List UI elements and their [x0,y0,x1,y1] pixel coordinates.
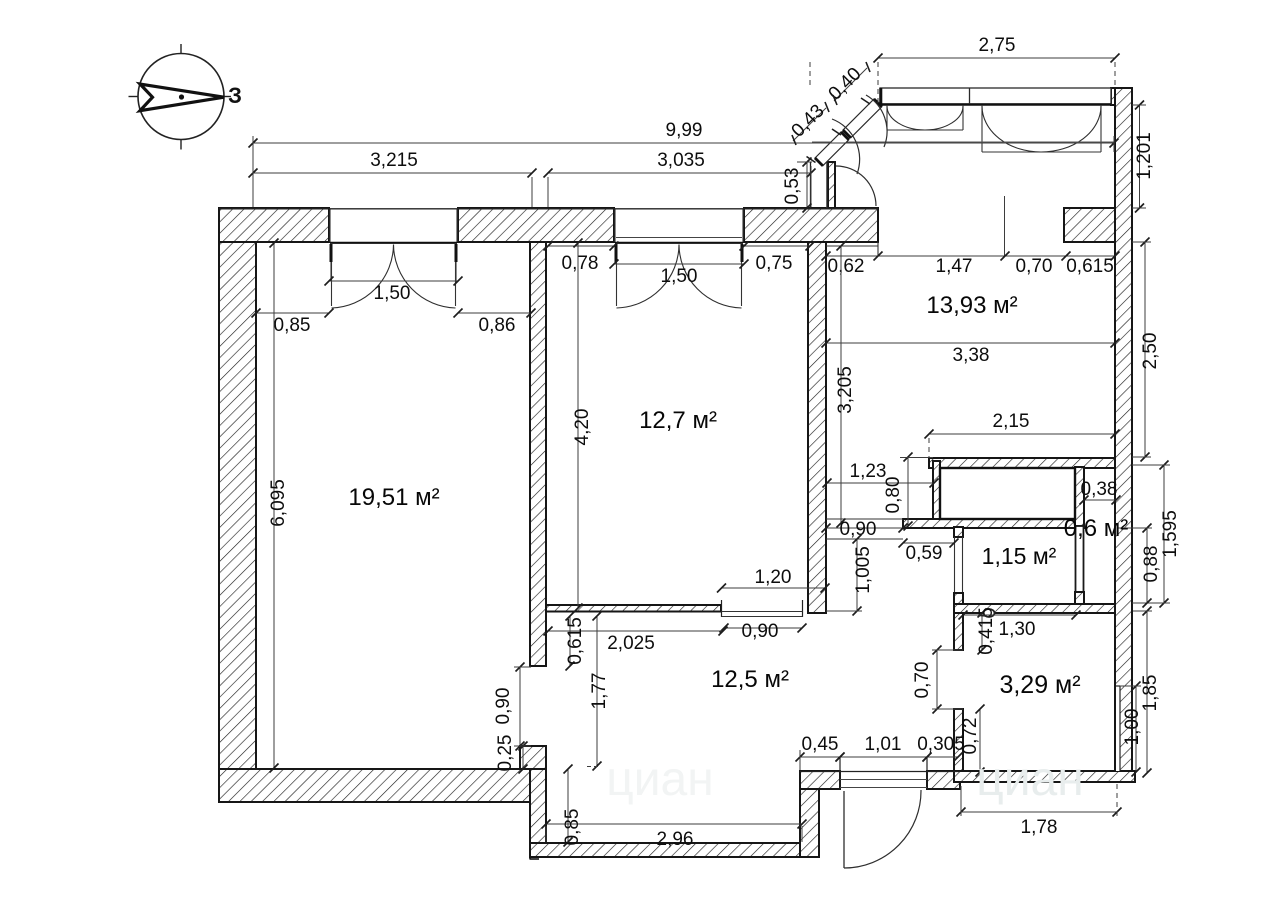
svg-text:0,80: 0,80 [883,477,904,514]
svg-text:4,20: 4,20 [572,409,593,446]
svg-text:1,85: 1,85 [1140,675,1161,712]
svg-text:0,615: 0,615 [565,617,586,665]
svg-text:0,38: 0,38 [1081,479,1118,500]
svg-text:12,5 м²: 12,5 м² [711,666,789,693]
svg-text:1,23: 1,23 [850,461,887,482]
svg-text:З: З [228,83,242,108]
svg-text:0,6 м²: 0,6 м² [1064,515,1129,542]
svg-text:2,15: 2,15 [993,411,1030,432]
svg-text:0,90: 0,90 [742,621,779,642]
svg-text:циан: циан [976,753,1084,806]
svg-text:2,75: 2,75 [979,35,1016,56]
svg-text:1,50: 1,50 [374,283,411,304]
svg-text:0,85: 0,85 [274,315,311,336]
svg-text:1,005: 1,005 [853,546,874,594]
svg-text:0,615: 0,615 [1066,256,1114,277]
svg-text:0,415: 0,415 [976,607,997,655]
svg-text:2,96: 2,96 [657,829,694,850]
svg-text:1,01: 1,01 [865,734,902,755]
svg-text:0,78: 0,78 [562,253,599,274]
svg-text:1,00: 1,00 [1122,709,1143,746]
svg-text:1,595: 1,595 [1160,510,1181,558]
svg-text:12,7 м²: 12,7 м² [639,407,717,434]
svg-text:циан: циан [606,753,714,806]
svg-text:6,095: 6,095 [268,479,289,527]
svg-text:3,035: 3,035 [657,150,705,171]
svg-text:1,50: 1,50 [661,266,698,287]
svg-text:3,29 м²: 3,29 м² [999,671,1080,699]
svg-text:0,25: 0,25 [495,735,516,772]
svg-text:0,72: 0,72 [960,718,981,755]
svg-text:0,70: 0,70 [1016,256,1053,277]
svg-text:0,85: 0,85 [562,809,583,846]
svg-text:1,30: 1,30 [999,619,1036,640]
svg-text:13,93 м²: 13,93 м² [926,292,1017,319]
svg-text:2,50: 2,50 [1140,333,1161,370]
svg-text:2,025: 2,025 [607,633,655,654]
svg-text:1,78: 1,78 [1021,817,1058,838]
svg-text:1,20: 1,20 [755,567,792,588]
svg-text:1,15 м²: 1,15 м² [982,543,1057,569]
svg-text:1,47: 1,47 [936,256,973,277]
svg-text:0,305: 0,305 [917,734,965,755]
svg-text:1,201: 1,201 [1134,132,1155,180]
svg-text:0,86: 0,86 [479,315,516,336]
svg-text:3,215: 3,215 [370,150,418,171]
svg-text:0,70: 0,70 [912,662,933,699]
svg-text:3,38: 3,38 [953,345,990,366]
svg-text:0,59: 0,59 [906,543,943,564]
svg-text:0,90: 0,90 [493,688,514,725]
svg-text:3,205: 3,205 [835,366,856,414]
svg-text:9,99: 9,99 [666,120,703,141]
svg-text:0,45: 0,45 [802,734,839,755]
svg-text:0,62: 0,62 [828,256,865,277]
svg-text:1,77: 1,77 [589,673,610,710]
svg-text:0,88: 0,88 [1141,546,1162,583]
svg-text:19,51 м²: 19,51 м² [348,484,439,511]
svg-text:0,53: 0,53 [782,168,803,205]
svg-text:0,75: 0,75 [756,253,793,274]
